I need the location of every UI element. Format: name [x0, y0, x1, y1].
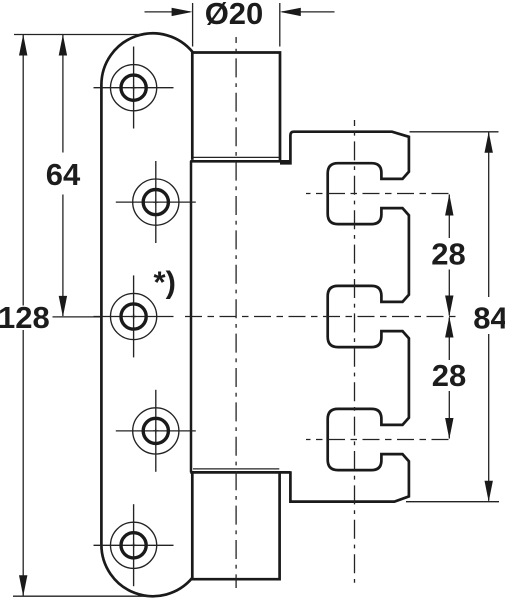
- dimension 128 line: [22, 35, 24, 596]
- hinge leaf outline: [101, 33, 193, 596]
- dimension 128 extension line bottom: [13, 595, 150, 597]
- dimension 128 extension line top: [14, 34, 141, 36]
- dimension 128 arrow down: [19, 575, 27, 596]
- svg-text:128: 128: [0, 300, 50, 335]
- diameter 20 extension lines: [193, 3, 280, 47]
- svg-text:64: 64: [46, 157, 81, 192]
- main horizontal centerline: [185, 316, 458, 318]
- dimension 84 extension line bottom: [406, 501, 499, 503]
- lower barrel body: [192, 472, 280, 579]
- svg-text:28: 28: [432, 358, 466, 393]
- svg-text:*): *): [154, 265, 176, 300]
- dimension 28 upper arrow up: [445, 194, 453, 216]
- top boss horizontal centerline: [306, 193, 449, 195]
- dimension 84 extension line top: [410, 131, 499, 133]
- leaf right edge: [190, 161, 193, 472]
- screw hole 4: [116, 390, 196, 472]
- frame part outline: [280, 132, 409, 502]
- lower barrel top thick edge: [190, 471, 290, 474]
- dimension 28 lower arrow down: [445, 418, 453, 439]
- dimension 84 arrow up: [485, 132, 493, 153]
- svg-text:84: 84: [473, 300, 505, 335]
- dimension 64 arrow up: [59, 35, 67, 56]
- dimension 64 arrow down: [59, 296, 67, 317]
- dimension 28 lower arrow up: [445, 317, 453, 338]
- dimension 84 line: [488, 133, 490, 501]
- upper barrel bottom thick edge: [190, 160, 290, 163]
- lower barrel top thin edge: [193, 468, 279, 470]
- screw hole 3: [94, 275, 174, 357]
- diameter 20 arrow left: [145, 11, 191, 13]
- dimension 28 lower line: [448, 318, 450, 439]
- dimension 28 upper arrow down: [445, 296, 453, 317]
- screw hole 1: [94, 47, 174, 129]
- boss vertical centerline: [354, 120, 356, 588]
- dimension 28 upper line: [448, 195, 450, 316]
- dimension 64 reference line: [53, 316, 102, 318]
- bottom boss horizontal centerline: [306, 439, 449, 441]
- dimension 64 line: [62, 35, 64, 316]
- dimension 128 arrow up: [19, 35, 27, 56]
- diameter 20 arrow right: [282, 11, 335, 13]
- screw hole 5: [94, 504, 174, 586]
- dimension 84 arrow down: [485, 481, 493, 502]
- svg-text:28: 28: [431, 237, 465, 272]
- barrel vertical centerline: [235, 37, 237, 588]
- svg-text:Ø20: Ø20: [205, 0, 264, 31]
- upper barrel bottom thin edge: [193, 156, 279, 158]
- screw hole 2: [116, 161, 196, 243]
- upper barrel body: [192, 53, 280, 161]
